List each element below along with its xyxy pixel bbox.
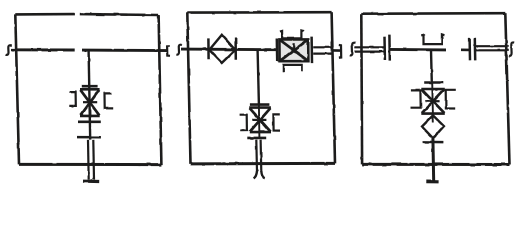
meter valve V3 right bonnet bracket <box>273 114 280 130</box>
pipe end fitting right of P1 <box>167 46 170 56</box>
enclosure box P1 top edge (left segment) <box>15 13 74 16</box>
enclosure box P2 top edge <box>187 11 331 14</box>
outlet stub pipe P2 <box>333 49 341 52</box>
enclosure box P2 bottom edge <box>191 162 336 166</box>
enclosure box P3 right edge <box>505 13 509 164</box>
pipe end curl (service inlet) left of P1 <box>6 45 12 55</box>
outlet pipe double line lower P3 <box>476 49 509 51</box>
strainer inlet flange tick P2 <box>207 38 210 59</box>
meter valve V3 upper stem bar <box>250 103 270 106</box>
valve V1 body top bar <box>80 88 100 91</box>
meter valve V3 center seat line <box>252 119 266 121</box>
main valve V2 right flange <box>310 37 313 64</box>
spool pipe double line lower P2 <box>313 52 333 54</box>
main valve V2 top bonnet bracket <box>280 30 304 38</box>
union flange bar B2 P3 <box>474 38 477 61</box>
valve V4 center seat line <box>425 100 439 102</box>
enclosure box P2 right edge <box>332 12 335 163</box>
valve V1 body bottom bar <box>80 115 100 118</box>
valve V4 body top bar <box>421 88 445 91</box>
pipe P3 middle run <box>390 48 446 51</box>
pipe P2 horizontal run <box>181 48 277 52</box>
main valve V2 diagonal TL-BR <box>280 40 309 61</box>
enclosure box P3 top edge <box>361 12 505 15</box>
valve V4 inner stem <box>431 83 434 114</box>
pipe P1 horizontal run (left segment) <box>11 48 74 51</box>
riser stem from pipe tee down through valve P1 <box>89 50 91 139</box>
union flange bar A2 P3 <box>388 35 391 61</box>
meter valve V3 diagonal TR-BL <box>250 108 271 132</box>
strainer outlet flange tick P2 <box>234 38 237 61</box>
valve V1 right bonnet bracket <box>105 93 114 108</box>
riser end bar P1 <box>83 180 99 184</box>
pipe P1 horizontal run (right segment) <box>82 49 168 52</box>
inlet pipe double line upper P3 <box>355 46 384 48</box>
spool pipe double line upper P2 <box>313 46 333 48</box>
main valve V2 diagonal TR-BL <box>280 40 308 61</box>
tee saddle bracket above pipe P3 <box>421 34 444 44</box>
riser stem down through bottom edge P3 <box>431 138 435 182</box>
tee stem down to valve P3 <box>430 50 433 83</box>
flange bar below diamond P3 <box>423 141 444 144</box>
main valve V2 stem mark <box>293 43 295 50</box>
riser end bar P3 <box>426 180 438 183</box>
pipe P3 short dash before union <box>461 48 469 51</box>
meter riser double line (left) P1 <box>87 140 90 180</box>
meter valve V3 body top bar <box>249 106 271 109</box>
main valve V2 body box <box>279 39 308 61</box>
enclosure box P1 top edge (right segment) <box>80 13 159 16</box>
valve V4 upper stem bar <box>424 81 443 84</box>
main valve V2 left flange <box>276 39 279 62</box>
pipe end curl (service inlet) left of P3 <box>350 43 356 56</box>
tee stem down to meter valve P2 <box>258 50 259 105</box>
union flange bar A1 P3 <box>383 37 386 60</box>
outlet end fitting P2 <box>339 45 341 57</box>
regulator diamond P3 <box>422 115 444 138</box>
enclosure box P3 left edge <box>360 14 363 165</box>
valve V4 diagonal TR-BL <box>422 90 444 114</box>
valve V1 body diagonal TL-BR <box>80 90 99 116</box>
union flange bar B1 P3 <box>468 38 471 61</box>
valve V1 body diagonal TR-BL <box>81 90 100 116</box>
meter valve V3 lower stem bar <box>247 137 266 140</box>
stem into regulator diamond P3 <box>432 114 434 123</box>
main valve V2 bottom bonnet bracket <box>283 65 302 72</box>
strainer diamond P2 <box>209 35 235 63</box>
enclosure box P1 right edge <box>159 15 162 165</box>
meter riser double line (right) P1 <box>92 140 95 180</box>
meter valve V3 body bottom bar <box>249 131 271 134</box>
valve V1 center seat line <box>83 101 97 103</box>
enclosure box P3 bottom edge <box>362 163 509 166</box>
meter valve V3 diagonal TL-BR <box>250 108 271 132</box>
valve V1 left bonnet bracket <box>69 92 76 106</box>
valve V4 diagonal TL-BR <box>422 90 445 114</box>
enclosure box P1 bottom edge <box>19 163 161 166</box>
meter valve V3 left bonnet bracket <box>240 115 247 131</box>
riser splayed left foot P2 <box>254 171 257 178</box>
inlet pipe double line lower P3 <box>355 50 384 52</box>
pipe end curl (service inlet) left of P2 <box>176 45 182 55</box>
valve V1 upper stem bar <box>81 85 97 88</box>
outlet end curl right of P3 <box>509 42 514 55</box>
valve V4 right bonnet bracket <box>446 90 456 109</box>
valve V4 left bonnet bracket <box>411 90 421 107</box>
valve V1 lower stem bar <box>78 121 101 124</box>
meter riser double line (left) P2 <box>255 140 258 172</box>
enclosure box P2 left edge <box>187 13 190 164</box>
meter valve V3 inner stem <box>258 105 261 138</box>
meter riser double line (right) P2 <box>260 140 263 172</box>
meter flange bar below valve P1 <box>77 136 101 139</box>
riser splayed right foot P2 <box>261 171 265 178</box>
enclosure box P1 left edge <box>15 14 19 164</box>
outlet pipe double line upper P3 <box>476 45 509 47</box>
valve V4 body bottom bar <box>421 112 445 115</box>
